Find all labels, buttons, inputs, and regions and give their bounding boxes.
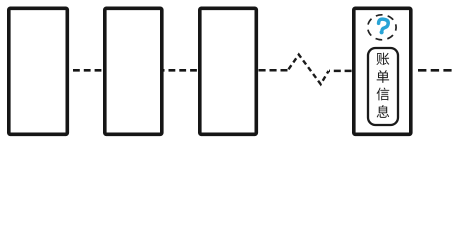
text char 信 bbox=[377, 88, 390, 101]
box 2 bbox=[105, 8, 162, 134]
wire dashed right of box4 bbox=[418, 69, 452, 72]
wire dashed spike (peak and valley) bbox=[289, 55, 329, 85]
box 1 bbox=[9, 8, 68, 134]
wire dashed spike to box4 (flat right) bbox=[329, 70, 352, 73]
text char 息 bbox=[377, 105, 390, 118]
help icon question mark hook bbox=[378, 19, 389, 31]
text char 账 bbox=[376, 53, 389, 66]
box 4 bbox=[354, 8, 411, 134]
help icon dashed ellipse bbox=[368, 15, 396, 40]
button rounded rect 账单信息 bbox=[368, 48, 398, 125]
wire dashed box1-box2 bbox=[69, 69, 103, 72]
wire dashed box2-box3 bbox=[164, 69, 199, 72]
text char 单 bbox=[377, 70, 389, 83]
wire dashed box3 to spike (flat left) bbox=[259, 69, 288, 72]
box 3 bbox=[200, 8, 256, 134]
help icon question mark dot bbox=[380, 30, 384, 34]
